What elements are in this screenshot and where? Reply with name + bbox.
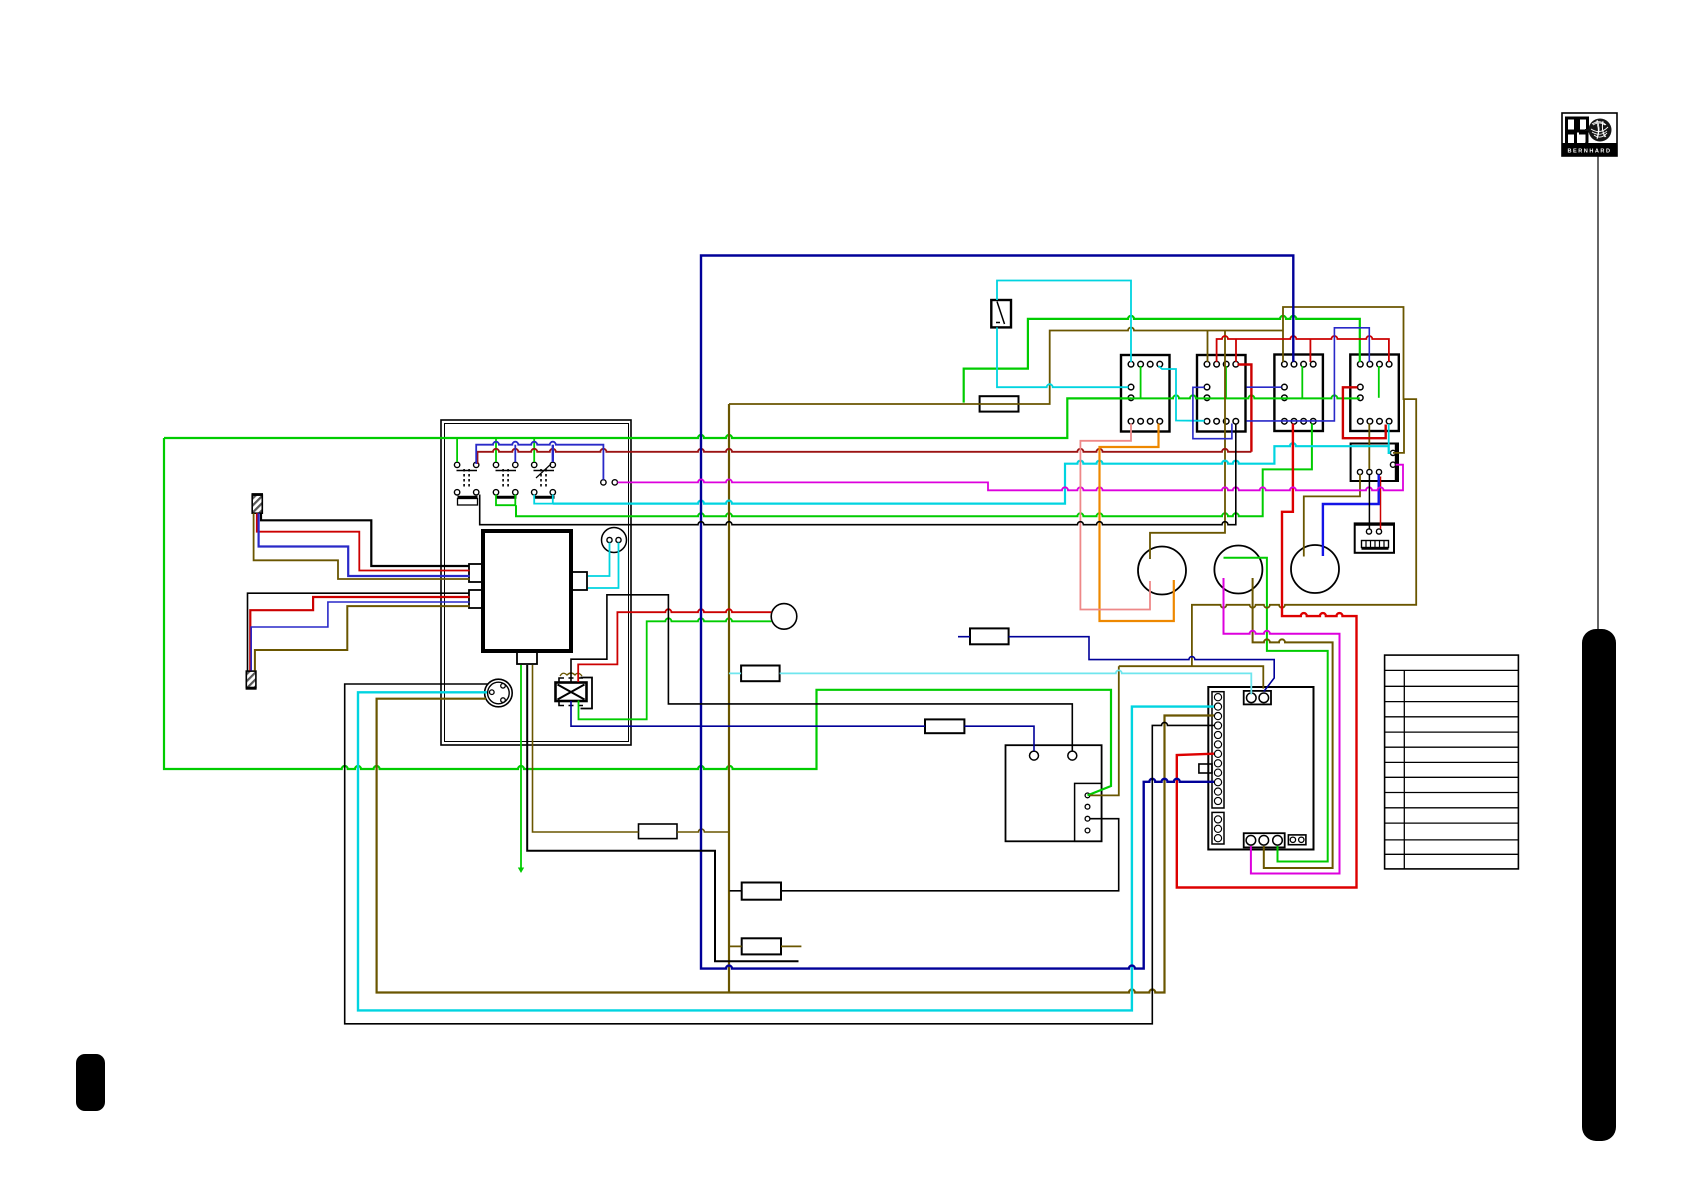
tab bottom (517, 651, 537, 664)
relay K3 (1274, 355, 1323, 432)
fuse F4 (639, 824, 678, 839)
wire blue drop g2 (514, 445, 516, 462)
wire salmon relay1 to gauge1 (1080, 424, 1150, 610)
wire olive ring to aux (1192, 307, 1416, 666)
wire olive relay4pin2 into aux (1368, 424, 1370, 470)
wire green ign group2 link (496, 495, 515, 506)
wire olive fuse branch (533, 665, 730, 832)
standalone pins (601, 480, 606, 485)
wire blue battery trunk (701, 256, 1293, 969)
wire olive hub to box pin1 (1090, 666, 1119, 795)
ignition switch terminals (454, 462, 459, 467)
black corner tag (76, 1054, 105, 1111)
wire blue drop g3 (552, 445, 554, 462)
wire green ignition drop 1 (456, 438, 458, 462)
wire cyan main loop connector (358, 692, 1214, 1010)
flasher housing (581, 678, 593, 709)
wire blue P2 wire (251, 602, 469, 671)
relay K4 (1350, 355, 1399, 432)
wire blue relay3 mid feed (1247, 386, 1282, 388)
wire green flasher to lamp (579, 618, 772, 719)
wire olive aux pin to ring (1393, 399, 1404, 453)
wire red relay4 loop (1343, 387, 1386, 438)
wire green relay pin stub (1378, 366, 1380, 398)
gauges: three circles (1138, 547, 1186, 595)
flasher X-box (556, 683, 587, 702)
wire blue flasher wire (571, 701, 1034, 751)
wire red relay3 to block pin7 (1177, 424, 1357, 888)
wire olive stub fuse7 (730, 945, 802, 947)
tab right (571, 572, 587, 590)
wire logo drop line (1597, 156, 1599, 629)
wire blue gauge3 to aux pin3 (1323, 475, 1379, 557)
wire cyan relay1-relay2 (1159, 366, 1205, 421)
strip side tab (1199, 764, 1212, 773)
wire red P2 wire (250, 597, 469, 671)
wire black tab stub (527, 665, 798, 961)
wire red relay bus y339 (1217, 336, 1389, 362)
wire cyan 2pin B (588, 543, 619, 589)
wire blue P1 wire (259, 513, 470, 576)
wire black box pin3 fused (730, 819, 1119, 891)
two-pin round connector (602, 528, 627, 553)
relay K1 (1121, 355, 1170, 432)
wire olive P2 wire (255, 606, 470, 670)
wire green tab drop w/ arrow (520, 665, 522, 869)
wire blue ignition link (476, 442, 603, 480)
wire red bus drop relay2pin4 (1235, 339, 1237, 362)
switch (top) (991, 300, 1011, 327)
wire red ignition feed (478, 449, 1252, 464)
wire cyan ign group3 link (534, 495, 553, 504)
wire cyan lighting run (553, 443, 1391, 503)
wire blue relay3-4 n (1247, 328, 1370, 421)
fuse F1 (980, 396, 1019, 411)
wire orange relay1 to gauge1 (1100, 424, 1174, 622)
svg-text:BERNHARD: BERNHARD (1567, 149, 1611, 155)
fuse F6 (742, 883, 781, 900)
logo Bernhard (1562, 113, 1617, 156)
wire olive main trunk (728, 404, 730, 993)
tab left lower (469, 590, 484, 608)
wire olive P1 wire (254, 513, 470, 579)
wire blue fuse2 wire (958, 637, 1274, 692)
wire black flasher run (571, 595, 1072, 751)
wire magenta horn feed (618, 465, 1404, 491)
wire olive gauge3 stub (1304, 474, 1360, 557)
wire green gauge2 to block (1224, 558, 1328, 862)
black side bar (1582, 629, 1616, 1141)
tab left upper (469, 564, 484, 582)
fuse F5 (925, 719, 964, 733)
wire olive relay3 pin1 drop (1282, 331, 1284, 363)
bottom control box (1006, 745, 1102, 841)
fuse F7 (742, 938, 781, 954)
connector plug P2 (hatched) (246, 671, 256, 687)
wire olive hub horizontal (1119, 666, 1264, 688)
wire green relay pin stub (1225, 366, 1227, 398)
fuse F3 (741, 666, 780, 682)
wire green relay bus y398 (1131, 395, 1360, 398)
wire red strip wire (1380, 477, 1382, 530)
group1 bottom bar+rect (458, 496, 478, 499)
wire black ignition to relay2 (480, 424, 1236, 525)
main unit box (483, 531, 571, 651)
wire olive gauge2 to block pin2 (1253, 578, 1333, 868)
wire green main loop top (164, 398, 1131, 438)
wire cyan 2pin A (588, 543, 610, 577)
wire black P1 wire (261, 513, 470, 566)
wire black strip wire (1368, 475, 1370, 530)
wire cyan switch feed (997, 281, 1131, 363)
signal table (1385, 655, 1519, 869)
wire green lighting feed (516, 424, 1312, 517)
wire green relay pin stub (1140, 366, 1142, 398)
round 3-pin connector (485, 679, 513, 707)
small lamp circle (771, 604, 797, 630)
wire green ignition drop 3 (533, 438, 535, 462)
wire olive connector wire (377, 699, 1214, 993)
wire black connector big loop (345, 684, 1214, 1024)
relay K2 (1197, 355, 1246, 432)
wire black P2 wire (248, 593, 470, 670)
aux block (top right) (1351, 444, 1398, 482)
wire olive trunk top to relays (729, 328, 1283, 405)
wire green box left-bottom to box pin (164, 438, 1111, 795)
wire magenta gauge2 to block (1224, 578, 1340, 874)
fuse F2 (970, 628, 1009, 644)
wire green relay pin stub (1301, 366, 1303, 398)
wire red P1 wire (257, 513, 470, 570)
outer control box (double border) (441, 420, 631, 745)
wire olive gauge1 stub (1150, 331, 1225, 560)
wire cyan relay4 pin4 stub (1388, 424, 1390, 446)
wire green relay4 feed (964, 316, 1360, 403)
terminal strip box (1355, 523, 1394, 552)
wire red relay2 riser (1238, 365, 1252, 452)
wire red flasher to lamp (578, 609, 771, 682)
wire olive relay2 pin1 drop (1207, 331, 1209, 363)
wire cyan fuse3 to block pin (729, 670, 1251, 694)
wire blue relay2 U (1193, 387, 1232, 438)
big connector block (right) (1208, 687, 1313, 850)
wire green ignition drop 2 (495, 438, 497, 462)
wire cyan switch out (997, 327, 1129, 387)
wire red bus drop relay3pin4 (1309, 339, 1311, 362)
